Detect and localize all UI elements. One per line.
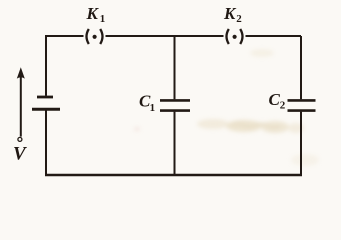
svg-text:2: 2: [236, 13, 242, 25]
battery cell (source V): [32, 97, 60, 109]
svg-text:K: K: [86, 4, 100, 23]
wire top-middle segment: [106, 35, 224, 37]
wire left lower (battery to bottom): [45, 111, 47, 176]
svg-text:K: K: [223, 4, 237, 23]
capacitor C2: [288, 100, 316, 110]
wire top-right segment: [246, 35, 302, 37]
wire middle upper (to C1): [174, 36, 176, 99]
wire top-left segment: [46, 35, 84, 37]
svg-text:V: V: [13, 143, 27, 164]
switch K2: [227, 29, 243, 44]
svg-text:C: C: [269, 90, 281, 109]
switch K1: [87, 29, 103, 44]
wire left upper (to battery): [45, 35, 47, 96]
wire right upper (to C2): [300, 36, 302, 99]
node terminal circle: [18, 137, 22, 141]
capacitor C1: [160, 100, 190, 110]
svg-text:1: 1: [100, 13, 106, 25]
svg-text:2: 2: [280, 99, 286, 111]
svg-text:1: 1: [150, 102, 156, 114]
wire bottom: [45, 174, 302, 177]
wire right lower (C2 to bottom): [300, 112, 302, 175]
voltage arrow: [17, 67, 25, 141]
wire middle lower (C1 to bottom): [174, 112, 176, 175]
